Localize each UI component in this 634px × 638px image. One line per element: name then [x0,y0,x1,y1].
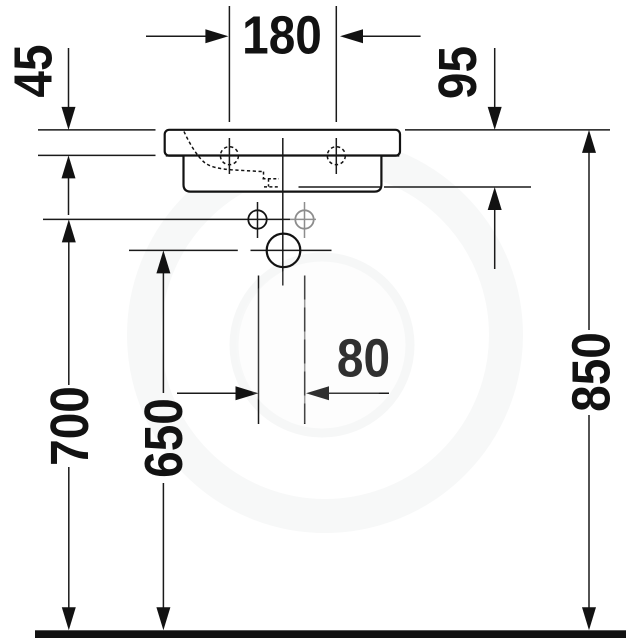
svg-text:45: 45 [3,44,63,97]
dim 180 right arrow line [358,35,421,37]
dim 45 line upper [68,48,70,112]
watermark inner disc overlay [236,264,396,424]
watermark inner blob [234,257,410,433]
dim 850 down arrowhead [582,607,596,630]
basin inner bottom line [299,186,381,188]
dim 80 right arrow line [326,392,389,394]
basin rim bottom edge line [166,154,399,156]
drain centerline vertical [282,138,284,286]
watermark ring [144,154,506,516]
svg-text:850: 850 [561,332,621,412]
dim 80 left arrow line [177,392,240,394]
fixing hole right centerline [304,202,306,238]
dim 650 up arrowhead [156,250,170,273]
fixing holes centerline gray part [290,218,316,220]
drain centerline horizontal left [129,249,238,251]
drain centerline horizontal right [251,249,332,251]
extension line top-right of rim (y=130) [405,129,610,131]
dim 700 down arrowhead [62,607,76,630]
dim 80 left arrowhead (points left) [306,386,329,400]
dim 650 line upper [162,266,164,393]
dim 700 line lower [68,467,70,618]
fixing hole left [248,210,266,228]
tap hole left centerline [228,138,230,174]
floor bar [35,630,626,638]
dim 180 left arrowhead [205,29,228,43]
dim 850 line upper [588,146,590,330]
svg-text:180: 180 [242,5,322,65]
dim 180 extension line right [335,6,337,122]
dim 850 line lower [588,415,590,618]
dim 45 line lower [68,172,70,215]
dim 700 up arrowhead [62,219,76,242]
basin body outline [184,156,382,192]
svg-text:650: 650 [133,398,193,478]
fixing hole left centerline [257,202,259,238]
dashed inner profile curve [184,132,263,172]
svg-text:700: 700 [39,386,99,466]
fixing holes centerline horizontal (y=219) [43,218,290,220]
dim 850 up arrowhead [582,130,596,153]
dim 95 line upper [494,48,496,112]
dim 80 right arrowhead (points right) [236,386,259,400]
dim 180 left arrow line [146,35,210,37]
drain hole circle [267,234,301,268]
dashed trap step [263,172,280,187]
dim 180 right arrowhead [340,29,363,43]
tap hole right centerline [335,138,337,174]
dim 95 up arrowhead [488,187,502,210]
dim 95 down arrowhead [488,107,502,130]
dim 700 line upper [68,235,70,385]
svg-text:95: 95 [427,46,487,99]
dim 180 extension line left [228,6,230,122]
extension line left rim bottom (y=155) [38,154,156,156]
dim 45 down arrowhead [62,107,76,130]
fixing hole right (grayed by watermark) [295,210,313,228]
dim 650 line lower [162,483,164,618]
extension line top-left of rim (y=130) [38,129,156,131]
dim 45 up arrowhead [62,155,76,178]
tap hole right (dashed circle) [327,147,345,165]
dim 650 down arrowhead [156,607,170,630]
basin rim outline [165,130,400,156]
tap hole left (dashed circle) [220,147,238,165]
dim 95 line lower [494,203,496,269]
dim 80 extension line left [258,276,260,425]
extension line right of basin bottom (y=187) [384,186,531,188]
dim 80 extension line right (grayed) [304,276,306,425]
